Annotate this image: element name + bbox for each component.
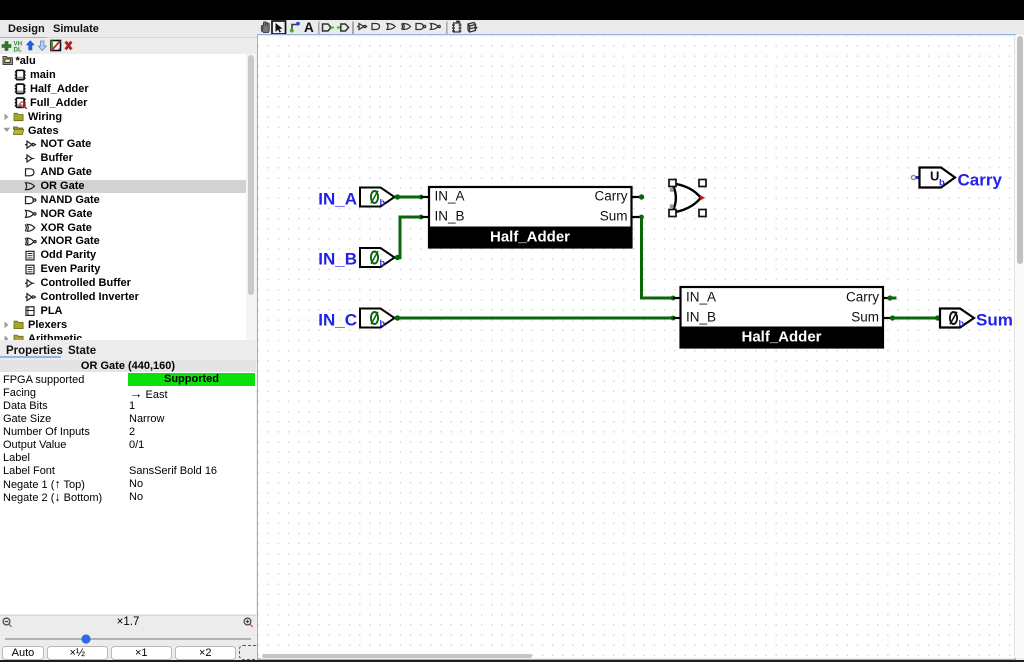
move up arrow bbox=[26, 41, 34, 51]
svg-text:Half_Adder: Half_Adder bbox=[741, 329, 821, 346]
svg-text:Sum: Sum bbox=[976, 311, 1013, 330]
output pin Sum bbox=[940, 309, 1013, 330]
OR bbox=[26, 183, 35, 190]
zoom in loupe bbox=[244, 618, 253, 627]
svg-text:b: b bbox=[380, 198, 386, 208]
wire IN_A to HA1 bbox=[395, 194, 424, 199]
svg-text:IN_B: IN_B bbox=[318, 250, 357, 269]
wire HA1 Sum to HA2 IN_A bbox=[639, 215, 675, 301]
circuit drawing bbox=[258, 36, 1014, 656]
Controlled Inverter bbox=[25, 294, 36, 301]
zoom out loupe bbox=[3, 618, 12, 627]
svg-text:Carry: Carry bbox=[958, 170, 1003, 189]
edit appearance icon bbox=[51, 41, 61, 51]
tabs bbox=[0, 340, 256, 360]
Buffer bbox=[25, 155, 34, 162]
NOR bbox=[26, 210, 37, 217]
input pin IN_B bbox=[318, 248, 394, 269]
slider bbox=[5, 638, 251, 640]
output pin icon bbox=[337, 27, 340, 29]
Even Parity bbox=[26, 265, 34, 274]
Odd Parity bbox=[26, 251, 34, 260]
input pin IN_A bbox=[318, 188, 394, 209]
svg-text:IN_B: IN_B bbox=[686, 309, 716, 324]
input pin icon bbox=[323, 24, 331, 31]
svg-text:IN_A: IN_A bbox=[435, 188, 465, 203]
explorer toolbar icons bbox=[0, 38, 80, 54]
circuit chips bbox=[15, 70, 26, 79]
svg-text:Carry: Carry bbox=[595, 188, 628, 203]
delete (red x) bbox=[65, 41, 73, 51]
output pin Carry bbox=[911, 168, 1002, 190]
add circuit (green plus) bbox=[2, 42, 11, 51]
svg-text:IN_C: IN_C bbox=[318, 311, 357, 330]
svg-text:Sum: Sum bbox=[600, 208, 628, 223]
selection handles bbox=[669, 180, 706, 217]
svg-text:b: b bbox=[939, 178, 945, 189]
XOR gate icon bbox=[402, 24, 411, 30]
separator bbox=[446, 22, 448, 35]
OR gate icon bbox=[387, 24, 395, 30]
subcircuit Half_Adder U1 bbox=[421, 187, 640, 248]
wire HA2 Sum to pin Sum bbox=[890, 315, 940, 320]
tree bbox=[0, 54, 256, 340]
wire IN_C to HA2 bbox=[395, 315, 676, 320]
NAND gate icon bbox=[416, 24, 426, 30]
canvas bbox=[258, 36, 1014, 658]
top black bar bbox=[0, 0, 1024, 20]
svg-text:b: b bbox=[380, 258, 386, 268]
svg-text:b: b bbox=[380, 319, 386, 329]
NOT bbox=[25, 141, 36, 148]
move down arrow bbox=[38, 41, 46, 51]
svg-text:Half_Adder: Half_Adder bbox=[490, 229, 570, 246]
subcircuit Half_Adder U2 bbox=[673, 287, 891, 348]
svg-text:U: U bbox=[930, 168, 939, 183]
subcircuit icon bbox=[468, 23, 477, 33]
edit tool selected box bbox=[272, 21, 286, 34]
wire HA2 Carry stub bbox=[887, 295, 896, 300]
project icon *alu bbox=[3, 57, 13, 65]
svg-text:DL: DL bbox=[14, 46, 22, 53]
NOR gate icon bbox=[431, 24, 441, 30]
wire tool bbox=[292, 25, 298, 31]
PLA bbox=[26, 307, 34, 316]
input pin IN_C bbox=[318, 309, 394, 330]
svg-text:IN_B: IN_B bbox=[435, 208, 465, 223]
node HA1 Carry stub bbox=[639, 194, 644, 199]
main toolbar icons bbox=[252, 20, 484, 38]
Controlled Buffer bbox=[25, 280, 34, 287]
separator bbox=[352, 22, 354, 35]
folders bbox=[14, 113, 23, 120]
zoom area bbox=[0, 615, 256, 662]
add circuit icon bbox=[452, 21, 462, 33]
NAND bbox=[26, 197, 36, 204]
collapse arrows bbox=[5, 114, 9, 121]
svg-text:A: A bbox=[304, 20, 314, 35]
vhdl icon bbox=[14, 41, 23, 54]
svg-text:b: b bbox=[959, 319, 965, 329]
XOR bbox=[25, 224, 35, 231]
svg-text:Carry: Carry bbox=[846, 289, 879, 304]
scrollbars bbox=[1014, 35, 1024, 658]
poke tool (hand) bbox=[261, 22, 269, 33]
tree scrollbar bbox=[246, 54, 256, 340]
svg-text:IN_A: IN_A bbox=[318, 190, 357, 209]
NOT gate icon bbox=[357, 24, 367, 30]
gate icons bbox=[25, 141, 36, 315]
or-gate (selected) bbox=[670, 183, 705, 213]
wire IN_B to HA1 bbox=[395, 215, 424, 261]
separator bbox=[318, 22, 320, 35]
svg-text:Sum: Sum bbox=[851, 309, 879, 324]
AND gate icon bbox=[372, 24, 380, 30]
svg-text:IN_A: IN_A bbox=[686, 289, 716, 304]
menu row bbox=[0, 20, 1024, 38]
AND bbox=[26, 169, 35, 176]
left panel base bbox=[0, 38, 256, 662]
XNOR bbox=[25, 238, 36, 245]
magnifier on Full_Adder bbox=[20, 102, 25, 107]
